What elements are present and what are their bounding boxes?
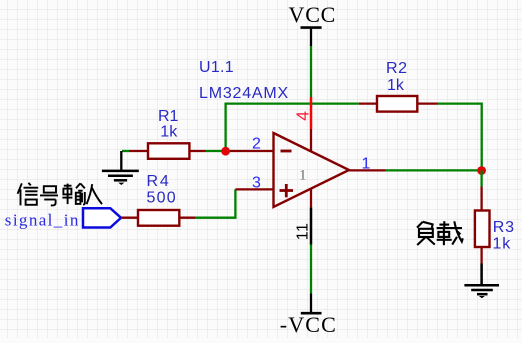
svg-text:1k: 1k (160, 124, 178, 141)
op-amp U1.1 pin 2 (226, 150, 274, 152)
ground (right, at R3) (464, 285, 499, 298)
op-amp U1.1 pin 3 (235, 188, 273, 190)
svg-text:1k: 1k (387, 77, 405, 94)
svg-text:1: 1 (362, 155, 371, 172)
junction dot (output node) (477, 166, 486, 175)
svg-text:2: 2 (252, 136, 261, 153)
op-amp U1.1 labels (199, 59, 289, 102)
svg-text:4: 4 (293, 111, 313, 121)
svg-text:signal_in: signal_in (5, 210, 80, 229)
resistor R4 (121, 173, 196, 226)
svg-text:R2: R2 (386, 60, 408, 77)
wire R2 to output node (438, 104, 482, 171)
resistor R1 (122, 108, 206, 159)
wire VCC to pin 4 (310, 46, 312, 97)
svg-text:11: 11 (295, 223, 312, 241)
wire feedback net (pin2 node up and right to R2) (226, 104, 359, 151)
op-amp U1.1 pin 1 (output) (349, 169, 386, 171)
op-amp U1.1 body (274, 133, 350, 207)
svg-text:VCC: VCC (289, 2, 337, 27)
svg-text:R4: R4 (147, 173, 171, 190)
svg-text:1: 1 (299, 167, 307, 183)
label 信号输入 (drawn) (18, 183, 102, 206)
负 (417, 222, 435, 245)
号 (40, 186, 58, 205)
resistor R2 (359, 60, 438, 112)
载 (437, 221, 463, 245)
power port -VCC (280, 294, 337, 338)
wire output to node (386, 169, 482, 171)
wire R1 to pin2 node (206, 150, 228, 152)
resistor R3 (load) (475, 187, 515, 264)
wire R4 to pin 3 (196, 189, 236, 217)
junction dot (inverting input node) (221, 147, 230, 156)
wire output node to R3 (480, 171, 482, 187)
wire pin11 to -VCC (310, 245, 312, 294)
入 (87, 184, 102, 204)
power port VCC (289, 2, 337, 46)
ground (left, at R1) (102, 151, 139, 185)
svg-text:500: 500 (147, 190, 177, 207)
svg-text:U1.1: U1.1 (199, 59, 234, 76)
svg-text:3: 3 (252, 175, 261, 192)
信 (18, 183, 39, 206)
svg-text:R3: R3 (493, 219, 515, 236)
label 负载 (drawn) (417, 221, 463, 245)
svg-text:LM324AMX: LM324AMX (199, 85, 289, 102)
输 (62, 183, 84, 204)
svg-text:-VCC: -VCC (280, 312, 337, 337)
svg-text:1k: 1k (493, 236, 512, 253)
svg-text:R1: R1 (158, 108, 179, 125)
wire R3 to ground (480, 264, 483, 285)
port signal_in (5, 208, 121, 229)
op-amp U1.1 pin 11 (295, 189, 312, 245)
op-amp U1.1 pin 4 (293, 97, 313, 151)
